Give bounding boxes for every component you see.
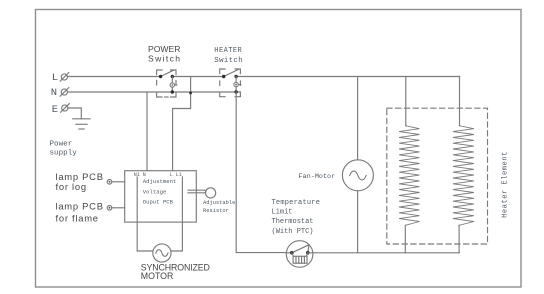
svg-text:MOTOR: MOTOR [141, 271, 174, 281]
junction S1 lamp to N [171, 90, 174, 93]
ground [73, 119, 91, 129]
neon lamp of S1 [170, 77, 177, 93]
svg-text:Limit: Limit [272, 209, 293, 217]
svg-text:Switch: Switch [148, 54, 181, 64]
svg-text:lamp PCB: lamp PCB [56, 200, 104, 211]
heater R-right bottom wire [458, 225, 460, 253]
wire N drop from S2 to bottom bus [236, 92, 286, 253]
motor M1 sine [156, 250, 168, 257]
svg-text:(With PTC): (With PTC) [272, 228, 314, 236]
svg-text:Voltage: Voltage [143, 188, 167, 195]
svg-text:Power: Power [50, 140, 73, 148]
fan motor M2 body [342, 160, 373, 191]
lamp PCB flame terminal [107, 206, 125, 211]
svg-text:HEATER: HEATER [214, 47, 242, 55]
node E terminal [61, 104, 70, 113]
wire L bus segment 2 [172, 76, 223, 78]
thermostat PTC element [292, 253, 308, 263]
switch S1 contact lever [161, 70, 174, 76]
adjustable resistor R1 body [206, 188, 216, 198]
thermostat TH1 contacts [290, 251, 294, 255]
svg-text:POWER: POWER [148, 44, 180, 54]
switch S1 contact dots [159, 75, 162, 78]
svg-text:E: E [52, 104, 58, 116]
wire bottom bus thermostat to heater [308, 252, 460, 254]
wire pin N1 through-box to motor (left) [137, 177, 153, 251]
wire L tap to PCB pin L [173, 77, 191, 171]
thermostat TH1 body [286, 241, 313, 268]
svg-text:for flame: for flame [56, 212, 99, 223]
switch S1 POWER enclosure (dashed) [157, 70, 176, 97]
node N terminal [60, 88, 69, 97]
fan motor M2 sine [350, 171, 366, 180]
svg-text:Heater Element: Heater Element [502, 151, 510, 218]
svg-text:Thermostat: Thermostat [272, 218, 314, 226]
heater R-left top wire [405, 77, 407, 126]
heater R-right top wire [459, 77, 461, 126]
motor M1 body [153, 244, 171, 262]
svg-text:Fan-Motor: Fan-Motor [299, 173, 336, 181]
node L terminal [60, 73, 69, 82]
switch S2 HEATER enclosure (dashed) [220, 69, 241, 97]
heater element R-left zigzag [399, 126, 419, 226]
heater R-left bottom wire [404, 225, 406, 253]
svg-text:Resistor: Resistor [203, 208, 229, 214]
junction L tap crossing [189, 91, 192, 94]
switch S2 contact dots [222, 75, 225, 78]
svg-text:supply: supply [50, 149, 78, 157]
fan motor M2 bottom wire [357, 191, 359, 253]
svg-text:L: L [52, 72, 58, 84]
svg-text:Ouput PCB: Ouput PCB [143, 198, 174, 205]
lamp PCB log terminal [107, 180, 125, 185]
svg-text:L L1: L L1 [170, 172, 182, 178]
adjustable resistor R1 leads [188, 189, 205, 191]
thermostat TH1 lever [292, 245, 309, 253]
svg-text:Temperature: Temperature [272, 199, 321, 207]
svg-text:for log: for log [56, 181, 87, 192]
heater element R-right zigzag [453, 126, 474, 226]
svg-text:Adjustment: Adjustment [143, 178, 177, 185]
svg-text:Switch: Switch [214, 57, 243, 65]
wire E to ground [68, 108, 81, 119]
junction S2 lamp to N [234, 90, 237, 93]
svg-text:N1 N: N1 N [134, 172, 146, 178]
wire L bus segment 3 [236, 76, 459, 78]
wire N bus [68, 91, 241, 93]
svg-text:Adjustable: Adjustable [203, 200, 235, 206]
switch S2 contact lever [224, 70, 238, 77]
heater element enclosure (dashed) [387, 108, 488, 244]
svg-text:N: N [51, 87, 57, 99]
neon lamp of S2 [234, 77, 241, 93]
wire into thermostat [286, 252, 292, 254]
PCB U1 box [125, 171, 197, 222]
wire N tap to PCB pin N [146, 92, 148, 171]
wire L bus segment 1 [68, 76, 161, 78]
fan motor M2 top wire [357, 77, 359, 160]
wire pin L1 through-box to motor (right) [171, 177, 182, 251]
